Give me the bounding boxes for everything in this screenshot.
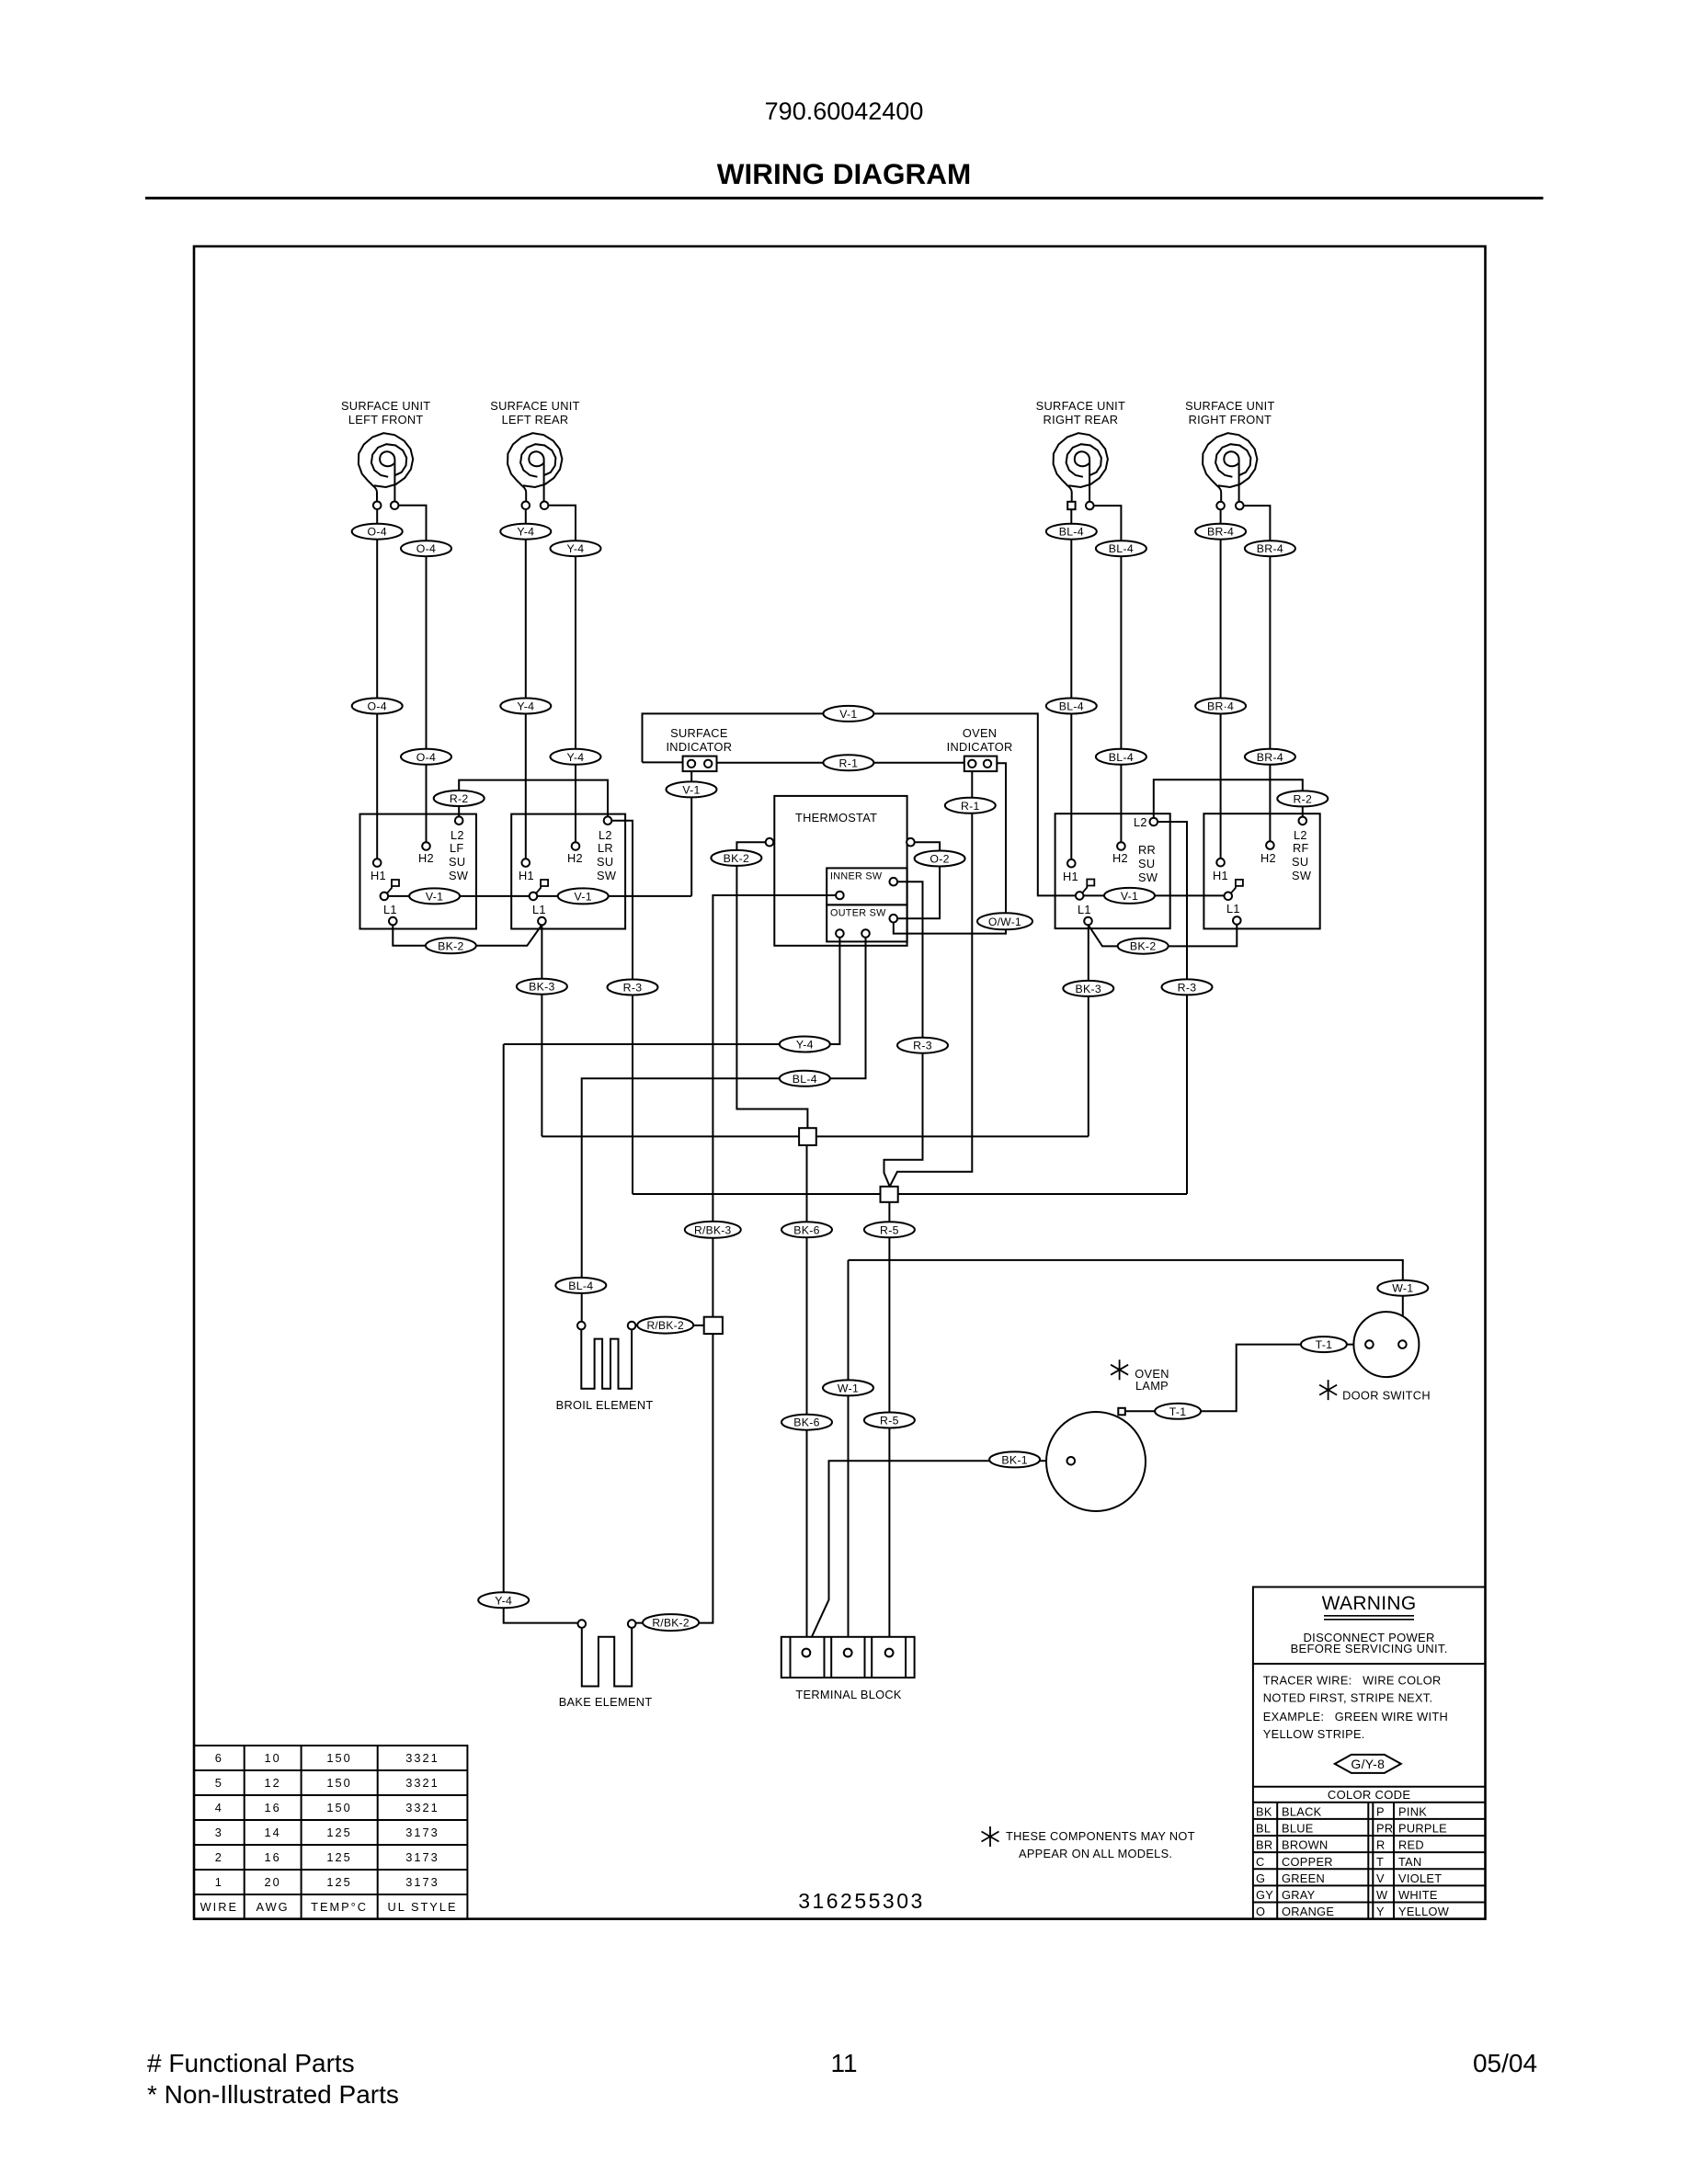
- wire Y-4 from outer sw bottom-left pin to bake element: [504, 938, 840, 1623]
- svg-text:DOOR SWITCH: DOOR SWITCH: [1342, 1389, 1431, 1403]
- svg-text:SW: SW: [449, 869, 469, 882]
- wire Y-4 LR right lead to H2 of LR switch: [544, 506, 576, 847]
- svg-text:# Functional Parts: # Functional Parts: [147, 2049, 355, 2077]
- svg-text:BR-4: BR-4: [1257, 751, 1283, 764]
- wire label R/BK-2 broil: [637, 1317, 693, 1334]
- wire label T-1 door switch: [1301, 1337, 1347, 1352]
- surface unit RR coil: [1054, 433, 1108, 502]
- thermostat inner sw box: [827, 868, 907, 904]
- svg-text:WIRING DIAGRAM: WIRING DIAGRAM: [717, 157, 971, 190]
- P flag at LR L1: [536, 880, 548, 893]
- svg-text:BLUE: BLUE: [1282, 1822, 1314, 1836]
- wire label O/W-1: [977, 913, 1032, 929]
- wire label W-1 door switch: [1377, 1280, 1428, 1296]
- svg-text:BK-3: BK-3: [529, 981, 555, 994]
- svg-text:SU: SU: [1292, 855, 1308, 869]
- svg-text:P: P: [1376, 1805, 1385, 1819]
- svg-text:BK: BK: [1256, 1805, 1272, 1819]
- wire V-1 left: LF L1 through LR L1 to surface indicator drop: [384, 895, 691, 897]
- wire BK-1 oven lamp to terminal block left: [806, 1461, 1067, 1649]
- wire label V-1 in LF switch: [409, 888, 460, 904]
- wire O-4 LF left lead to H1 of LF switch: [376, 506, 378, 863]
- svg-text:125: 125: [326, 1875, 351, 1889]
- svg-text:O-4: O-4: [367, 700, 386, 713]
- svg-text:316255303: 316255303: [798, 1889, 925, 1913]
- svg-text:R/BK-2: R/BK-2: [646, 1319, 684, 1332]
- svg-text:COLOR CODE: COLOR CODE: [1328, 1788, 1410, 1802]
- pin H2 of LR switch: [572, 842, 580, 850]
- svg-text:SU: SU: [1138, 857, 1155, 870]
- svg-text:125: 125: [326, 1826, 351, 1839]
- svg-text:RIGHT FRONT: RIGHT FRONT: [1189, 413, 1272, 427]
- wire O-4 LF right lead to H2 of LF switch: [394, 506, 426, 847]
- svg-text:3173: 3173: [405, 1850, 439, 1864]
- wire R/BK-2 junction to broil right terminal: [635, 1325, 703, 1326]
- svg-text:INNER SW: INNER SW: [830, 871, 883, 882]
- wire gauge table grid: [194, 1746, 467, 1919]
- pin thermostat right: [907, 838, 915, 847]
- wire label BK-1: [989, 1451, 1040, 1467]
- wire label Y-4 b: [551, 540, 601, 556]
- pin L1 switch arm of LR switch: [530, 893, 538, 901]
- door switch circle: [1353, 1312, 1419, 1377]
- svg-text:THERMOSTAT: THERMOSTAT: [795, 811, 877, 825]
- svg-text:R/BK-3: R/BK-3: [694, 1223, 732, 1236]
- svg-text:R-3: R-3: [913, 1040, 932, 1052]
- pin outer sw bottom left: [836, 929, 844, 938]
- svg-text:ORANGE: ORANGE: [1282, 1905, 1334, 1918]
- svg-text:UL STYLE: UL STYLE: [388, 1900, 458, 1914]
- wire R-3 left from L2 LR down to R net: [611, 821, 633, 1194]
- svg-text:BK-2: BK-2: [438, 939, 464, 952]
- terminal block pin left: [803, 1649, 811, 1657]
- svg-text:H2: H2: [1260, 851, 1276, 865]
- svg-text:BR: BR: [1256, 1838, 1272, 1852]
- wire R-1 between indicators: [717, 762, 964, 764]
- pin H1 of LR switch: [522, 859, 530, 867]
- svg-text:SURFACE: SURFACE: [670, 726, 728, 740]
- svg-text:O-2: O-2: [930, 853, 949, 866]
- wire label V-1 in RR switch: [1104, 888, 1155, 904]
- wire label R-2 right: [1277, 791, 1328, 806]
- svg-text:150: 150: [326, 1751, 351, 1765]
- pin surface indicator right: [704, 760, 712, 768]
- pin H1 of LF switch: [373, 859, 382, 867]
- svg-text:BK-3: BK-3: [1076, 983, 1102, 995]
- wire inner sw right pin R-3 to junction: [884, 882, 923, 1187]
- svg-text:Y-4: Y-4: [567, 542, 585, 555]
- svg-text:O/W-1: O/W-1: [988, 916, 1021, 928]
- wire R-1 from oven indicator left pin down to junction: [890, 768, 973, 1187]
- svg-text:V-1: V-1: [682, 783, 700, 796]
- terminal door switch right: [1398, 1340, 1407, 1348]
- main border frame: [194, 246, 1486, 1919]
- svg-text:WARNING: WARNING: [1322, 1593, 1417, 1614]
- svg-text:4: 4: [215, 1801, 223, 1814]
- svg-text:G: G: [1256, 1871, 1265, 1885]
- terminal bake element left: [578, 1620, 587, 1628]
- svg-text:SURFACE UNIT: SURFACE UNIT: [1036, 399, 1125, 413]
- svg-text:BR-4: BR-4: [1257, 542, 1283, 555]
- svg-text:WHITE: WHITE: [1398, 1888, 1438, 1902]
- svg-text:INDICATOR: INDICATOR: [666, 740, 732, 754]
- wire label O-4 a: [352, 524, 403, 540]
- svg-text:T: T: [1376, 1855, 1384, 1869]
- svg-text:125: 125: [326, 1850, 351, 1864]
- wire label W-1 drop: [823, 1380, 873, 1395]
- svg-text:V-1: V-1: [1121, 890, 1138, 903]
- terminal RF coil pin 1: [1216, 502, 1225, 510]
- pin L2 of RF switch: [1299, 817, 1307, 825]
- terminal oven lamp left: [1067, 1457, 1076, 1465]
- svg-text:H2: H2: [567, 851, 583, 865]
- svg-text:Y-4: Y-4: [796, 1039, 814, 1052]
- svg-text:BL-4: BL-4: [1109, 751, 1134, 764]
- switch box RF SU SW: [1203, 813, 1319, 928]
- terminal RR coil pin 2: [1086, 502, 1094, 510]
- svg-text:OVEN: OVEN: [963, 726, 997, 740]
- wire label BL-4 d: [1096, 749, 1146, 765]
- pin oven indicator right: [984, 760, 991, 768]
- pin H2 of RR switch: [1117, 842, 1125, 850]
- wire label BR-4 a: [1195, 524, 1246, 540]
- broil element coil: [581, 1329, 632, 1389]
- svg-text:BL-4: BL-4: [1109, 542, 1134, 555]
- svg-text:3321: 3321: [405, 1776, 439, 1790]
- terminal door switch left: [1365, 1340, 1374, 1348]
- wire R-2 between L2 RR and L2 RF: [1154, 779, 1303, 822]
- wire label BK-3 right: [1063, 981, 1113, 996]
- wire label R-3 right: [1162, 979, 1213, 995]
- svg-text:T-1: T-1: [1316, 1338, 1333, 1351]
- svg-text:GY: GY: [1256, 1888, 1273, 1902]
- wire BK-2 LF L1 to LR L1: [393, 925, 542, 946]
- switch box RR SU SW: [1055, 813, 1170, 928]
- svg-text:H1: H1: [1213, 869, 1228, 882]
- svg-text:R-1: R-1: [839, 756, 859, 769]
- svg-text:H1: H1: [519, 869, 534, 882]
- wire label T-1 lamp: [1155, 1404, 1201, 1419]
- svg-text:TEMP°C: TEMP°C: [311, 1900, 368, 1914]
- wire O/W-1 from oven indicator right pin to outer switch: [894, 763, 1006, 933]
- wire label BL-4 broil: [555, 1278, 606, 1293]
- wire label Y-4 outer sw: [780, 1037, 830, 1052]
- svg-text:11: 11: [830, 2049, 857, 2077]
- wire W-1 horizontal to door switch: [849, 1260, 1403, 1341]
- svg-text:3173: 3173: [405, 1826, 439, 1839]
- terminal LF coil pin 1: [373, 502, 382, 510]
- svg-text:NOTED FIRST, STRIPE NEXT.: NOTED FIRST, STRIPE NEXT.: [1263, 1691, 1433, 1705]
- pin surface indicator left: [688, 760, 695, 768]
- svg-text:R-3: R-3: [1178, 981, 1197, 994]
- svg-text:SURFACE UNIT: SURFACE UNIT: [490, 399, 579, 413]
- svg-text:O: O: [1256, 1905, 1265, 1918]
- wire label BK-6 upper: [781, 1222, 832, 1237]
- wire label O-4 d: [401, 749, 451, 765]
- pin thermostat left: [766, 838, 774, 847]
- svg-text:BK-6: BK-6: [793, 1416, 820, 1429]
- svg-text:L2: L2: [599, 828, 612, 842]
- wire label BL-4 b: [1096, 540, 1146, 556]
- wire label R-2 left: [434, 791, 485, 806]
- surface unit LF coil: [359, 433, 413, 502]
- wire T-1 door switch to oven lamp: [1125, 1345, 1365, 1412]
- wire label R-5 upper: [864, 1222, 915, 1237]
- pin L1 terminal of RR switch: [1084, 917, 1092, 926]
- svg-text:L1: L1: [1226, 902, 1240, 916]
- surface indicator box: [683, 756, 717, 772]
- wire label R-5 lower: [864, 1413, 915, 1428]
- wire label BK-6 lower: [781, 1415, 832, 1430]
- svg-text:16: 16: [264, 1801, 280, 1814]
- svg-text:PURPLE: PURPLE: [1398, 1822, 1447, 1836]
- terminal RR coil pin 1: [1067, 502, 1075, 509]
- junction square R net: [881, 1187, 898, 1202]
- svg-text:LAMP: LAMP: [1135, 1379, 1169, 1393]
- svg-text:SW: SW: [597, 869, 617, 882]
- oven indicator box: [964, 756, 998, 772]
- pin L1 switch arm of RF switch: [1225, 893, 1233, 901]
- pin inner sw right: [890, 878, 898, 886]
- svg-text:BR-4: BR-4: [1207, 526, 1234, 539]
- pin outer sw right: [890, 915, 898, 923]
- svg-text:WIRE: WIRE: [200, 1900, 238, 1914]
- svg-text:G/Y-8: G/Y-8: [1351, 1757, 1385, 1771]
- wire label Y-4 d: [551, 749, 601, 765]
- title rule: [145, 197, 1544, 199]
- svg-text:TRACER WIRE: WIRE COLOR: TRACER WIRE: WIRE COLOR: [1263, 1674, 1442, 1688]
- svg-text:R: R: [1376, 1838, 1386, 1852]
- svg-text:COPPER: COPPER: [1282, 1855, 1333, 1869]
- svg-text:3321: 3321: [405, 1751, 439, 1765]
- svg-text:H2: H2: [1112, 851, 1128, 865]
- pin L2 of LF switch: [455, 816, 463, 825]
- thermostat outer sw box: [827, 904, 907, 941]
- wire label R-1 mid: [823, 755, 873, 770]
- svg-text:INDICATOR: INDICATOR: [947, 740, 1013, 754]
- svg-text:L1: L1: [383, 903, 397, 916]
- asterisk oven lamp: [1111, 1359, 1128, 1380]
- wire BL-4 RR right lead to H2 of RR switch: [1089, 506, 1121, 846]
- pin L1 switch arm of RR switch: [1076, 892, 1084, 900]
- svg-text:Y-4: Y-4: [495, 1594, 512, 1607]
- pin H1 of RF switch: [1216, 859, 1225, 867]
- terminal RF coil pin 2: [1236, 502, 1244, 510]
- svg-text:SURFACE UNIT: SURFACE UNIT: [341, 399, 430, 413]
- svg-text:O-4: O-4: [416, 542, 436, 555]
- junction square R/BK net: [704, 1317, 723, 1334]
- wire label R-3 mid: [897, 1038, 948, 1053]
- svg-text:W-1: W-1: [1392, 1282, 1413, 1295]
- surface unit LR coil: [508, 433, 562, 502]
- svg-text:12: 12: [264, 1776, 280, 1790]
- svg-text:RF: RF: [1293, 841, 1309, 855]
- svg-text:V: V: [1376, 1871, 1385, 1885]
- svg-text:GREEN: GREEN: [1282, 1871, 1325, 1885]
- svg-text:RED: RED: [1398, 1838, 1424, 1852]
- svg-text:150: 150: [326, 1776, 351, 1790]
- wire R-3 right from L2 RR down to R net: [1158, 822, 1187, 1194]
- terminal broil element left: [577, 1322, 586, 1330]
- svg-text:* Non-Illustrated Parts: * Non-Illustrated Parts: [147, 2080, 399, 2109]
- svg-text:BL-4: BL-4: [793, 1073, 817, 1086]
- pin outer sw bottom right: [861, 929, 870, 938]
- wire surface indicator box stub: [643, 761, 683, 763]
- svg-text:R-1: R-1: [961, 800, 980, 813]
- P flag at RR L1: [1082, 880, 1094, 893]
- svg-text:BL-4: BL-4: [1059, 700, 1084, 713]
- svg-text:1: 1: [215, 1875, 223, 1889]
- svg-text:L2: L2: [451, 828, 464, 842]
- svg-text:2: 2: [215, 1850, 223, 1864]
- wire O-2 thermostat right pin to outer sw right pin: [897, 842, 940, 918]
- warning box frame: [1253, 1587, 1485, 1919]
- terminal block separator lines: [791, 1637, 907, 1678]
- svg-text:790.60042400: 790.60042400: [765, 97, 924, 125]
- wire label BK-2 right: [1118, 938, 1169, 954]
- wire label V-1 indicator: [667, 781, 717, 797]
- wire BL-4 RR left lead to H1 of RR switch: [1070, 506, 1072, 863]
- surface unit RF coil: [1203, 433, 1257, 502]
- svg-text:O-4: O-4: [416, 751, 436, 764]
- svg-text:PR: PR: [1376, 1822, 1393, 1836]
- svg-text:H2: H2: [418, 851, 434, 865]
- wire R net horizontal: [633, 1193, 1187, 1195]
- svg-text:RR: RR: [1138, 843, 1156, 857]
- wire BR-4 RF right lead to H2 of RF switch: [1239, 506, 1270, 846]
- svg-text:V-1: V-1: [575, 890, 592, 903]
- svg-text:05/04: 05/04: [1473, 2049, 1537, 2077]
- terminal block pin right: [885, 1649, 894, 1657]
- junction square BK net: [799, 1128, 816, 1145]
- wire label Y-4 c: [500, 699, 551, 714]
- svg-text:BK-1: BK-1: [1001, 1453, 1028, 1466]
- svg-text:Y-4: Y-4: [517, 526, 534, 539]
- warning title underline: [1324, 1616, 1414, 1620]
- svg-text:R-3: R-3: [623, 982, 643, 995]
- wire BK-2 RR L1 to RF L1: [1089, 925, 1237, 947]
- switch box LF SU SW: [360, 814, 477, 929]
- svg-text:LF: LF: [450, 841, 464, 855]
- svg-text:TERMINAL BLOCK: TERMINAL BLOCK: [795, 1688, 902, 1701]
- wire BK-3 right from RR L1 down: [1088, 925, 1089, 1136]
- svg-text:W-1: W-1: [838, 1382, 859, 1394]
- svg-text:3173: 3173: [405, 1875, 439, 1889]
- wire label Y-4 bake: [478, 1592, 529, 1608]
- wire label BR-4 c: [1195, 699, 1246, 714]
- svg-text:SU: SU: [597, 855, 613, 869]
- svg-text:BEFORE SERVICING UNIT.: BEFORE SERVICING UNIT.: [1291, 1642, 1448, 1655]
- svg-text:LEFT REAR: LEFT REAR: [502, 413, 569, 427]
- svg-text:LR: LR: [598, 841, 613, 855]
- svg-text:H1: H1: [1063, 870, 1078, 883]
- pin inner sw left: [836, 892, 844, 900]
- wire label BL-4 outer sw: [780, 1071, 830, 1086]
- wire surface indicator left pin drop V-1: [690, 768, 692, 896]
- bake element coil: [582, 1628, 632, 1687]
- terminal block pin middle: [844, 1649, 852, 1657]
- svg-text:W: W: [1376, 1888, 1388, 1902]
- svg-text:20: 20: [264, 1875, 280, 1889]
- pin H2 of LF switch: [422, 842, 430, 850]
- wire label O-4 b: [401, 540, 451, 556]
- svg-text:10: 10: [264, 1751, 280, 1765]
- svg-text:Y-4: Y-4: [567, 751, 585, 764]
- svg-text:L2: L2: [1134, 815, 1147, 829]
- wire label G/Y-8 example: [1335, 1755, 1401, 1773]
- svg-text:R-2: R-2: [450, 792, 469, 805]
- oven lamp circle: [1046, 1412, 1146, 1511]
- svg-text:V-1: V-1: [426, 890, 443, 903]
- svg-text:RIGHT REAR: RIGHT REAR: [1044, 413, 1119, 427]
- terminal bake element right: [628, 1620, 636, 1628]
- wire label BK-3 left: [517, 979, 567, 995]
- svg-text:GRAY: GRAY: [1282, 1888, 1316, 1902]
- svg-text:BL: BL: [1256, 1822, 1271, 1836]
- svg-text:R/BK-2: R/BK-2: [652, 1617, 690, 1630]
- switch box LR SU SW: [511, 814, 625, 929]
- svg-text:TAN: TAN: [1398, 1855, 1422, 1869]
- pin L2 of LR switch: [604, 816, 612, 825]
- svg-text:V-1: V-1: [839, 708, 857, 721]
- svg-text:SURFACE UNIT: SURFACE UNIT: [1185, 399, 1274, 413]
- thermostat box: [774, 796, 907, 946]
- svg-text:BK-6: BK-6: [793, 1223, 820, 1236]
- svg-text:YELLOW: YELLOW: [1398, 1905, 1450, 1918]
- svg-text:R-5: R-5: [880, 1415, 899, 1428]
- wire inner sw left pin R/BK-3 down to broil and bake: [635, 895, 836, 1623]
- svg-text:SW: SW: [1292, 869, 1312, 882]
- wire R-5 from junction to terminal block right: [888, 1202, 890, 1649]
- color code table grid: [1253, 1803, 1485, 1919]
- wire Y-4 LR left lead to H1 of LR switch: [525, 506, 527, 863]
- svg-text:PINK: PINK: [1398, 1805, 1427, 1819]
- wire label BR-4 d: [1245, 749, 1295, 765]
- wire label R-1 drop: [945, 798, 996, 813]
- svg-text:3321: 3321: [405, 1801, 439, 1814]
- terminal LR coil pin 1: [522, 502, 530, 510]
- svg-text:150: 150: [326, 1801, 351, 1814]
- svg-text:T-1: T-1: [1169, 1405, 1187, 1418]
- terminal LR coil pin 2: [541, 502, 549, 510]
- wire BL-4 from outer sw bottom-right pin to broil element: [582, 938, 866, 1322]
- wire label R-3 left: [608, 980, 658, 995]
- svg-text:Y: Y: [1376, 1905, 1385, 1918]
- pin L1 switch arm of LF switch: [381, 893, 389, 901]
- svg-text:16: 16: [264, 1850, 280, 1864]
- svg-text:R-5: R-5: [880, 1223, 899, 1236]
- wire label R/BK-3: [685, 1222, 741, 1238]
- svg-text:3: 3: [215, 1826, 223, 1839]
- terminal oven lamp top: [1118, 1408, 1125, 1416]
- wire R-2 between L2 LF and L2 LR: [459, 780, 608, 821]
- svg-text:O-4: O-4: [367, 526, 386, 539]
- pin L1 terminal of RF switch: [1233, 916, 1241, 925]
- svg-text:YELLOW STRIPE.: YELLOW STRIPE.: [1263, 1727, 1365, 1741]
- svg-text:C: C: [1256, 1855, 1265, 1869]
- svg-text:SW: SW: [1138, 870, 1158, 884]
- svg-text:APPEAR ON ALL MODELS.: APPEAR ON ALL MODELS.: [1019, 1847, 1172, 1860]
- wire label V-1 top: [823, 706, 873, 722]
- P flag at LF L1: [387, 880, 399, 893]
- svg-text:THESE COMPONENTS MAY NOT: THESE COMPONENTS MAY NOT: [1006, 1829, 1195, 1843]
- wire label R/BK-2 bake: [643, 1614, 699, 1631]
- wire BK-2 thermostat left pin to BK junction: [736, 842, 807, 1128]
- terminal broil element right: [628, 1322, 636, 1330]
- svg-text:H1: H1: [371, 869, 386, 882]
- wire W-1 down to terminal block middle: [848, 1260, 850, 1649]
- svg-text:R-2: R-2: [1293, 792, 1312, 805]
